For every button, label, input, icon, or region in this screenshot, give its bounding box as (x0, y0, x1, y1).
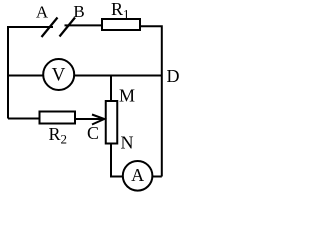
resistor R2 (40, 112, 76, 124)
wire: switch B to resistor R1 (65, 24, 104, 26)
switch blade B (60, 18, 76, 37)
svg-text:B: B (73, 2, 84, 21)
wire: voltmeter to node D on right side (72, 75, 162, 77)
svg-text:A: A (131, 165, 144, 185)
switch blade A (42, 18, 58, 38)
svg-text:V: V (52, 65, 66, 86)
wire: ammeter to rheostat bottom terminal N (111, 143, 123, 177)
resistor R1 (102, 19, 140, 30)
svg-text:N: N (121, 133, 134, 153)
wire: left side to voltmeter (8, 75, 46, 77)
svg-text:C: C (87, 123, 99, 143)
rheostat body M-N (106, 101, 118, 144)
wiper arrow C pointing at rheostat (92, 115, 104, 125)
wire: R2 to wiper arrow shaft (76, 118, 102, 120)
wire: left vertical with top-left corner to switch contact A (8, 27, 53, 119)
voltmeter V (43, 59, 74, 90)
rheostat top lead to node on voltmeter wire (110, 75, 112, 100)
ammeter A (123, 161, 153, 191)
wire: left vertical bottom to resistor R2 (8, 118, 41, 120)
svg-text:A: A (36, 3, 49, 22)
wire: R1 to top-right corner and down right side to node D and bottom-right corner (141, 26, 162, 176)
svg-text:D: D (167, 66, 180, 86)
wire: bottom-right corner to ammeter (152, 176, 162, 178)
svg-text:M: M (119, 86, 135, 106)
